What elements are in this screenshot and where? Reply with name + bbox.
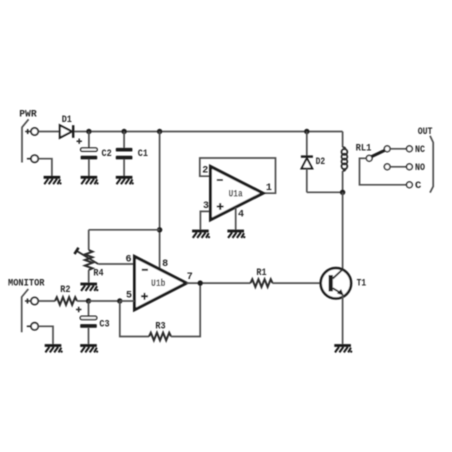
wire R4 wiper to U1b pin 6 xyxy=(98,263,134,265)
MONITOR connector bracket xyxy=(22,289,29,332)
svg-text:1: 1 xyxy=(266,183,272,194)
node: rail-C2 junction xyxy=(86,129,91,134)
svg-text:7: 7 xyxy=(187,272,193,283)
svg-text:PWR: PWR xyxy=(19,109,37,121)
PWR + terminal xyxy=(31,128,38,135)
svg-text:D1: D1 xyxy=(62,114,72,126)
diode D1 xyxy=(60,114,73,138)
node: output/R3 junction xyxy=(198,280,203,285)
wire T1 emitter to ground xyxy=(342,295,344,345)
U1a pin4 wire to ground xyxy=(235,208,237,230)
ground C1 xyxy=(116,177,134,184)
op-amp U1b xyxy=(125,254,192,310)
NO contact xyxy=(384,164,390,170)
wire junction down to T1 collector xyxy=(342,192,344,269)
ground U1a pin4 xyxy=(227,231,245,238)
svg-text:C1: C1 xyxy=(138,148,148,160)
ground C2 xyxy=(81,177,99,184)
wire node to pin5 node xyxy=(89,300,120,302)
svg-text:C2: C2 xyxy=(102,148,112,160)
svg-text:R3: R3 xyxy=(155,321,165,333)
MONITOR - terminal xyxy=(31,323,38,330)
diode D2 (flyback) xyxy=(301,132,325,193)
svg-text:4: 4 xyxy=(238,210,244,221)
node: rail to V+ branch junction xyxy=(157,129,162,134)
ground C3 xyxy=(80,346,98,353)
wire R4 top riser xyxy=(88,230,90,250)
R4 wiper arrow xyxy=(77,251,99,264)
R3 feedback path wires xyxy=(120,301,149,337)
PWR - terminal xyxy=(31,155,38,162)
wire MONITOR- to ground xyxy=(38,326,53,344)
svg-text:C3: C3 xyxy=(99,319,109,331)
svg-text:U1b: U1b xyxy=(151,278,165,290)
ground MONITOR xyxy=(45,346,63,353)
U1a pin3 wire to ground xyxy=(200,211,210,229)
wire PWR- to ground xyxy=(38,159,52,176)
svg-text:R1: R1 xyxy=(256,267,266,279)
svg-text:MONITOR: MONITOR xyxy=(8,278,45,290)
svg-text:C: C xyxy=(415,180,422,192)
ground PWR xyxy=(44,177,62,184)
relay coil RL1 xyxy=(342,132,348,193)
wire R1 to T1 base xyxy=(273,282,329,284)
svg-text:D2: D2 xyxy=(316,156,326,168)
node: pin5/R3 junction xyxy=(117,298,122,303)
relay armature xyxy=(372,150,385,156)
svg-text:6: 6 xyxy=(125,254,131,265)
node: rail-C1 junction xyxy=(121,129,126,134)
svg-text:5: 5 xyxy=(126,291,132,302)
wire R4 bottom to ground xyxy=(88,270,90,283)
node: R4 tee junction xyxy=(157,227,162,232)
resistor R1 xyxy=(251,267,273,287)
trimmer R4 xyxy=(75,248,104,280)
svg-text:RL1: RL1 xyxy=(356,142,372,154)
svg-text:T1: T1 xyxy=(357,278,367,290)
svg-text:2: 2 xyxy=(202,165,208,176)
node: rail-D2 junction xyxy=(304,129,309,134)
resistor R2 xyxy=(55,284,77,305)
ground U1a pin3 xyxy=(192,231,210,238)
MONITOR + terminal xyxy=(31,297,38,304)
svg-text:R4: R4 xyxy=(93,268,103,280)
ground T1 xyxy=(334,346,352,353)
node: coil/D2/collector junction xyxy=(340,190,345,195)
ground R4 xyxy=(80,284,98,291)
capacitor C1 xyxy=(116,132,148,177)
wire R3 to output riser xyxy=(171,283,200,336)
svg-text:8: 8 xyxy=(162,259,168,270)
svg-text:NC: NC xyxy=(415,144,426,156)
wire R2 to node xyxy=(77,300,89,302)
wire MONITOR+ to R2 xyxy=(38,300,55,302)
wire rail down to U1b pin 8 xyxy=(159,132,161,270)
capacitor C3 (electrolytic) xyxy=(76,301,110,344)
capacitor C2 (electrolytic) xyxy=(77,132,112,177)
T1 base bar xyxy=(329,275,333,291)
svg-text:NO: NO xyxy=(415,162,425,174)
OUT connector bracket xyxy=(430,136,433,193)
wire to U1b pin 5 xyxy=(120,300,135,302)
NC contact xyxy=(384,146,390,152)
T1 collector xyxy=(333,269,343,278)
C contact + wire from armature xyxy=(360,158,407,185)
+V rail wire xyxy=(38,131,343,133)
svg-text:R2: R2 xyxy=(60,284,70,296)
svg-text:3: 3 xyxy=(203,201,209,212)
resistor R3 xyxy=(149,321,171,341)
wire U1b output xyxy=(187,282,251,284)
op-amp U1a xyxy=(200,158,276,230)
wire tee to R4 top xyxy=(89,229,160,231)
T1 emitter with arrow xyxy=(333,288,341,293)
transistor T1 xyxy=(321,268,366,298)
node: R2/C3 junction xyxy=(86,298,91,303)
PWR connector bracket xyxy=(22,119,29,162)
svg-text:U1a: U1a xyxy=(228,189,243,201)
wire D2 bottom to coil node xyxy=(307,191,343,193)
U1a feedback loop wire xyxy=(200,158,276,193)
relay RL1 contacts xyxy=(356,142,426,191)
